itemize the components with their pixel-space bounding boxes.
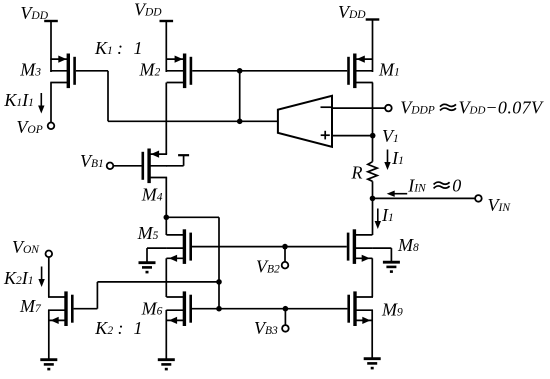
svg-text:K2:1: K2:1: [94, 318, 142, 338]
svg-text:K1:1: K1:1: [94, 38, 143, 58]
svg-text:R: R: [351, 162, 363, 182]
svg-text:0: 0: [452, 175, 461, 195]
